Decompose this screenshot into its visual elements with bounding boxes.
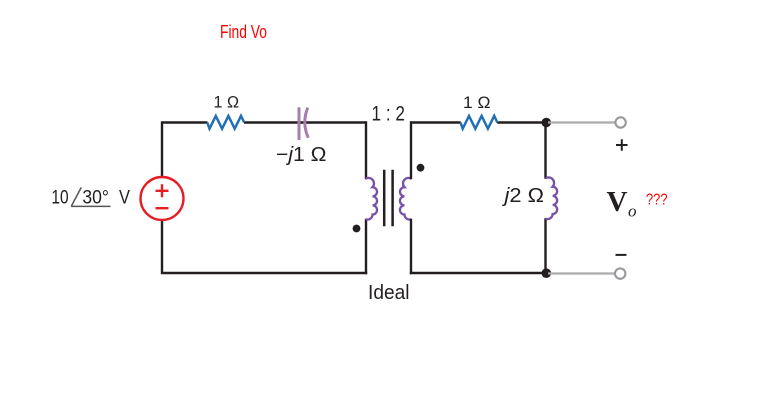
node: top output junction bbox=[542, 118, 552, 128]
wire: secondary left vertical segments bbox=[410, 121, 412, 274]
resistor R1 1 ohm (left) bbox=[207, 116, 244, 129]
terminal: top output (open circle) bbox=[615, 117, 625, 127]
resistor R2 1 ohm (right) bbox=[461, 116, 498, 129]
terminal: bottom output (open circle) bbox=[615, 268, 625, 278]
transformer primary polarity dot bbox=[353, 225, 361, 233]
inductor j2 ohm bbox=[546, 177, 557, 219]
capacitor C1 curved plate bbox=[305, 108, 308, 138]
svg-text:10: 10 bbox=[51, 188, 68, 209]
voltage source V1 circle bbox=[141, 177, 184, 220]
transformer secondary coil L2 bbox=[400, 178, 411, 220]
transformer primary coil L1 bbox=[366, 178, 377, 220]
svg-text:o: o bbox=[628, 202, 637, 221]
voltage source plus sign bbox=[156, 184, 169, 197]
wire: primary top (left corner to transformer) bbox=[162, 121, 366, 123]
node: bottom output junction bbox=[542, 268, 552, 278]
svg-text:1 Ω: 1 Ω bbox=[463, 93, 491, 112]
svg-text:1 : 2: 1 : 2 bbox=[372, 102, 406, 125]
svg-text:30°: 30° bbox=[82, 188, 109, 209]
voltage source minus sign bbox=[156, 207, 169, 209]
svg-text:???: ??? bbox=[646, 192, 668, 209]
svg-text:V: V bbox=[119, 188, 130, 209]
svg-text:−j1 Ω: −j1 Ω bbox=[276, 144, 327, 166]
output minus sign bbox=[616, 254, 627, 256]
svg-text:Ideal: Ideal bbox=[368, 282, 410, 304]
transformer secondary polarity dot bbox=[417, 164, 425, 172]
transformer core bars bbox=[384, 170, 392, 226]
output plus sign bbox=[616, 139, 628, 151]
svg-text:Find Vo: Find Vo bbox=[220, 22, 267, 42]
wire: primary right vertical segments at transformer bbox=[365, 121, 367, 274]
svg-text:1 Ω: 1 Ω bbox=[214, 93, 240, 112]
label 10/30 V for source bbox=[51, 187, 130, 208]
svg-text:j2 Ω: j2 Ω bbox=[501, 185, 544, 207]
wire: gray lead to top terminal bbox=[548, 121, 615, 123]
wire: secondary bottom bbox=[410, 272, 546, 274]
svg-text:V: V bbox=[607, 186, 628, 218]
capacitor C1 -j1 ohm : straight plate bbox=[298, 107, 301, 140]
wire: secondary top bbox=[411, 121, 546, 123]
wire: secondary right vertical segments bbox=[544, 123, 546, 274]
wire: primary left vertical (top to source) bbox=[161, 121, 163, 177]
wire: gray lead to bottom terminal bbox=[548, 272, 615, 274]
wire: primary left vertical (source to bottom) bbox=[161, 221, 367, 275]
